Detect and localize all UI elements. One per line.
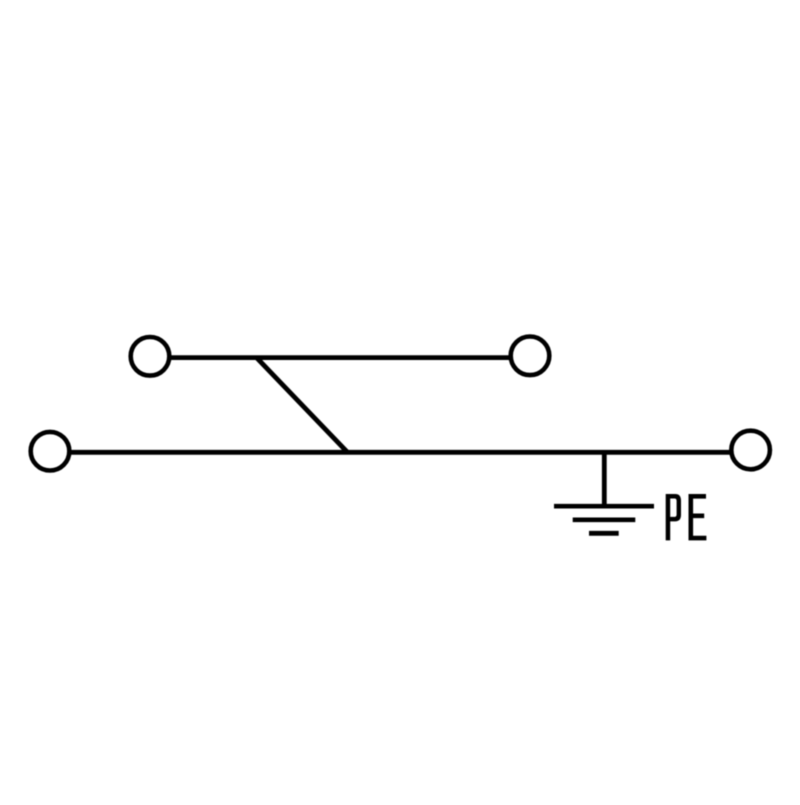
wire diagonal jumper — [257, 358, 348, 453]
terminal circle bottom-left — [31, 432, 70, 471]
label PE letter E — [689, 494, 707, 540]
terminal circle top-right — [511, 337, 550, 376]
wire bottom horizontal — [70, 450, 732, 455]
label PE letter P — [666, 494, 681, 540]
ground bar 1 — [554, 504, 654, 509]
wire ground stem — [602, 452, 607, 506]
terminal circle bottom-right — [731, 431, 770, 470]
wire top horizontal — [170, 355, 510, 360]
ground bar 2 — [573, 517, 636, 522]
ground bar 3 — [589, 531, 619, 536]
terminal circle top-left — [131, 337, 170, 376]
